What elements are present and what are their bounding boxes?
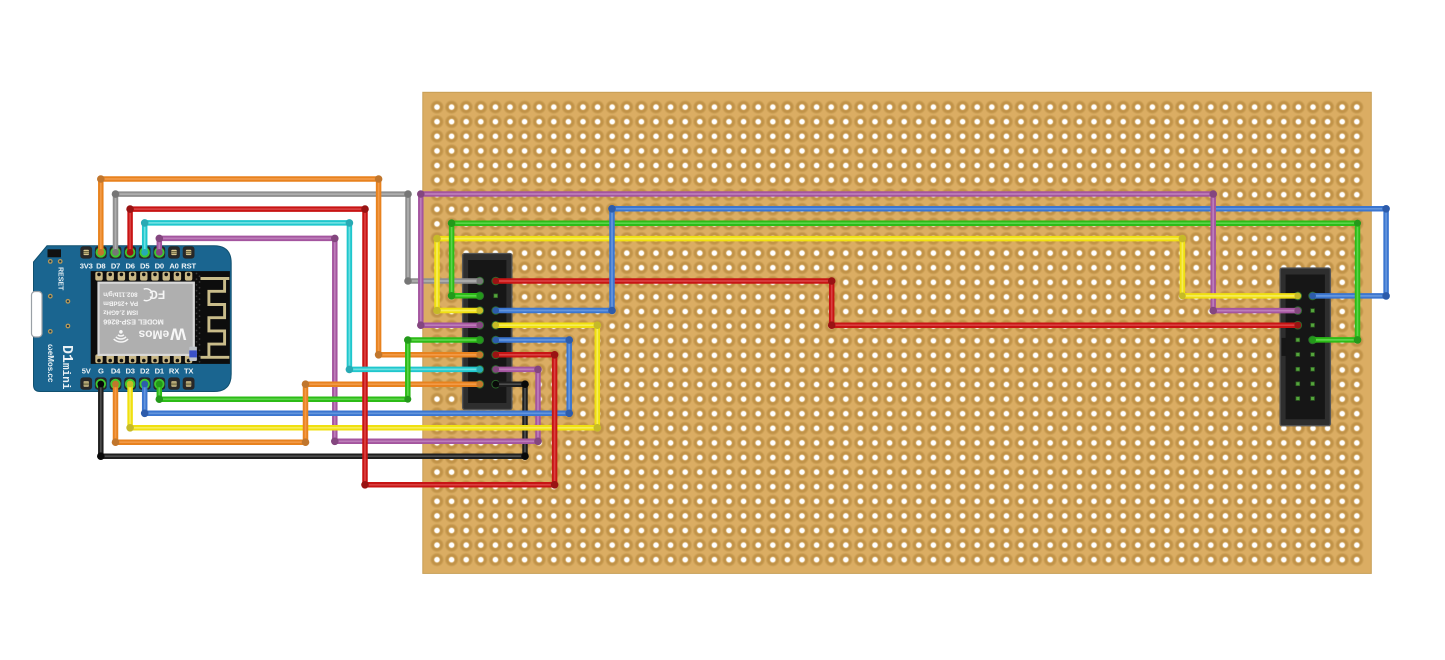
svg-text:PA +25dBm: PA +25dBm	[103, 300, 138, 307]
svg-text:5V: 5V	[82, 367, 92, 376]
svg-text:D1: D1	[155, 367, 165, 376]
top pin labels	[80, 262, 197, 271]
svg-text:D2: D2	[140, 367, 149, 376]
wire blue J1 pin 6 to J2 pin 2	[492, 205, 1390, 314]
wire cyan D5 to J1 pin 13	[141, 219, 483, 373]
wire orange D8 to J1 pin 11	[97, 175, 483, 358]
USB connector	[32, 292, 43, 338]
module castellation pads	[95, 272, 192, 363]
wire green D1 to J1 pin 9 (segment 2)	[404, 336, 483, 402]
wire red J1 pin 2 to J2 pin 5	[492, 277, 1301, 329]
wire green D1 to J1 pin 9 (segment 1)	[156, 381, 412, 403]
reset button	[48, 249, 62, 257]
svg-text:D4: D4	[111, 367, 121, 376]
shield silkscreen (rotated 180)	[103, 288, 186, 344]
svg-text:TX: TX	[184, 367, 193, 376]
mounting holes	[48, 259, 70, 334]
RF shield	[99, 283, 194, 355]
svg-text:MODEL ESP-8266: MODEL ESP-8266	[103, 318, 164, 327]
IDC connector J2	[1280, 268, 1330, 426]
wire gray D7 to J1 pin 1	[112, 190, 484, 285]
svg-text:RESET: RESET	[57, 267, 64, 291]
ESP-8266 module	[91, 271, 230, 364]
wire purple D0 to J1 pin 14	[156, 235, 542, 446]
wire green J1 pin 3 to J2 pin 8 (segment 2)	[1309, 220, 1361, 344]
wire red D6 to J1 pin 12	[126, 205, 558, 488]
svg-text:D7: D7	[111, 262, 120, 271]
svg-text:FC: FC	[149, 288, 165, 302]
wire yellow J1 pin 5 to J2 pin 1 (segment 1)	[433, 235, 1186, 315]
header pins bottom row	[80, 377, 194, 389]
svg-text:D3: D3	[125, 367, 134, 376]
svg-text:RST: RST	[181, 262, 196, 271]
PCB antenna	[201, 279, 230, 358]
svg-text:3V3: 3V3	[80, 262, 93, 271]
svg-text:eMos: eMos	[138, 328, 169, 342]
svg-text:RX: RX	[169, 367, 179, 376]
svg-text:G: G	[98, 367, 104, 376]
bottom pin labels	[82, 367, 194, 376]
svg-text:ωeMos.cc: ωeMos.cc	[46, 344, 55, 383]
WeMos D1 mini module U1	[32, 246, 232, 392]
svg-text:A0: A0	[169, 262, 178, 271]
header pins top row	[80, 246, 194, 258]
svg-text:D5: D5	[140, 262, 150, 271]
svg-text:W: W	[169, 325, 186, 344]
svg-text:D8: D8	[96, 262, 105, 271]
wire green J1 pin 3 to J2 pin 8 (segment 1)	[448, 219, 1361, 299]
wire yellow J1 pin 5 to J2 pin 1 (segment 2)	[1179, 293, 1301, 300]
IDC connector J1	[463, 254, 512, 410]
wire orange D4 to J1 pin 15	[112, 380, 484, 446]
SMD capacitor	[189, 347, 197, 361]
wire yellow D3 to J1 pin 8	[126, 321, 601, 431]
perfboard	[423, 92, 1372, 573]
svg-text:D6: D6	[125, 262, 134, 271]
svg-text:D0: D0	[155, 262, 164, 271]
svg-text:802.11b/g/n: 802.11b/g/n	[103, 291, 138, 298]
wire purple J1 pin 7 to J2 pin 3	[417, 190, 1301, 329]
svg-text:ISM 2.4GHz: ISM 2.4GHz	[103, 309, 138, 316]
wire blue D2 to J1 pin 10	[141, 336, 573, 417]
connector pin sockets	[476, 277, 1317, 389]
wire black G to J1 pin 16	[97, 380, 529, 460]
